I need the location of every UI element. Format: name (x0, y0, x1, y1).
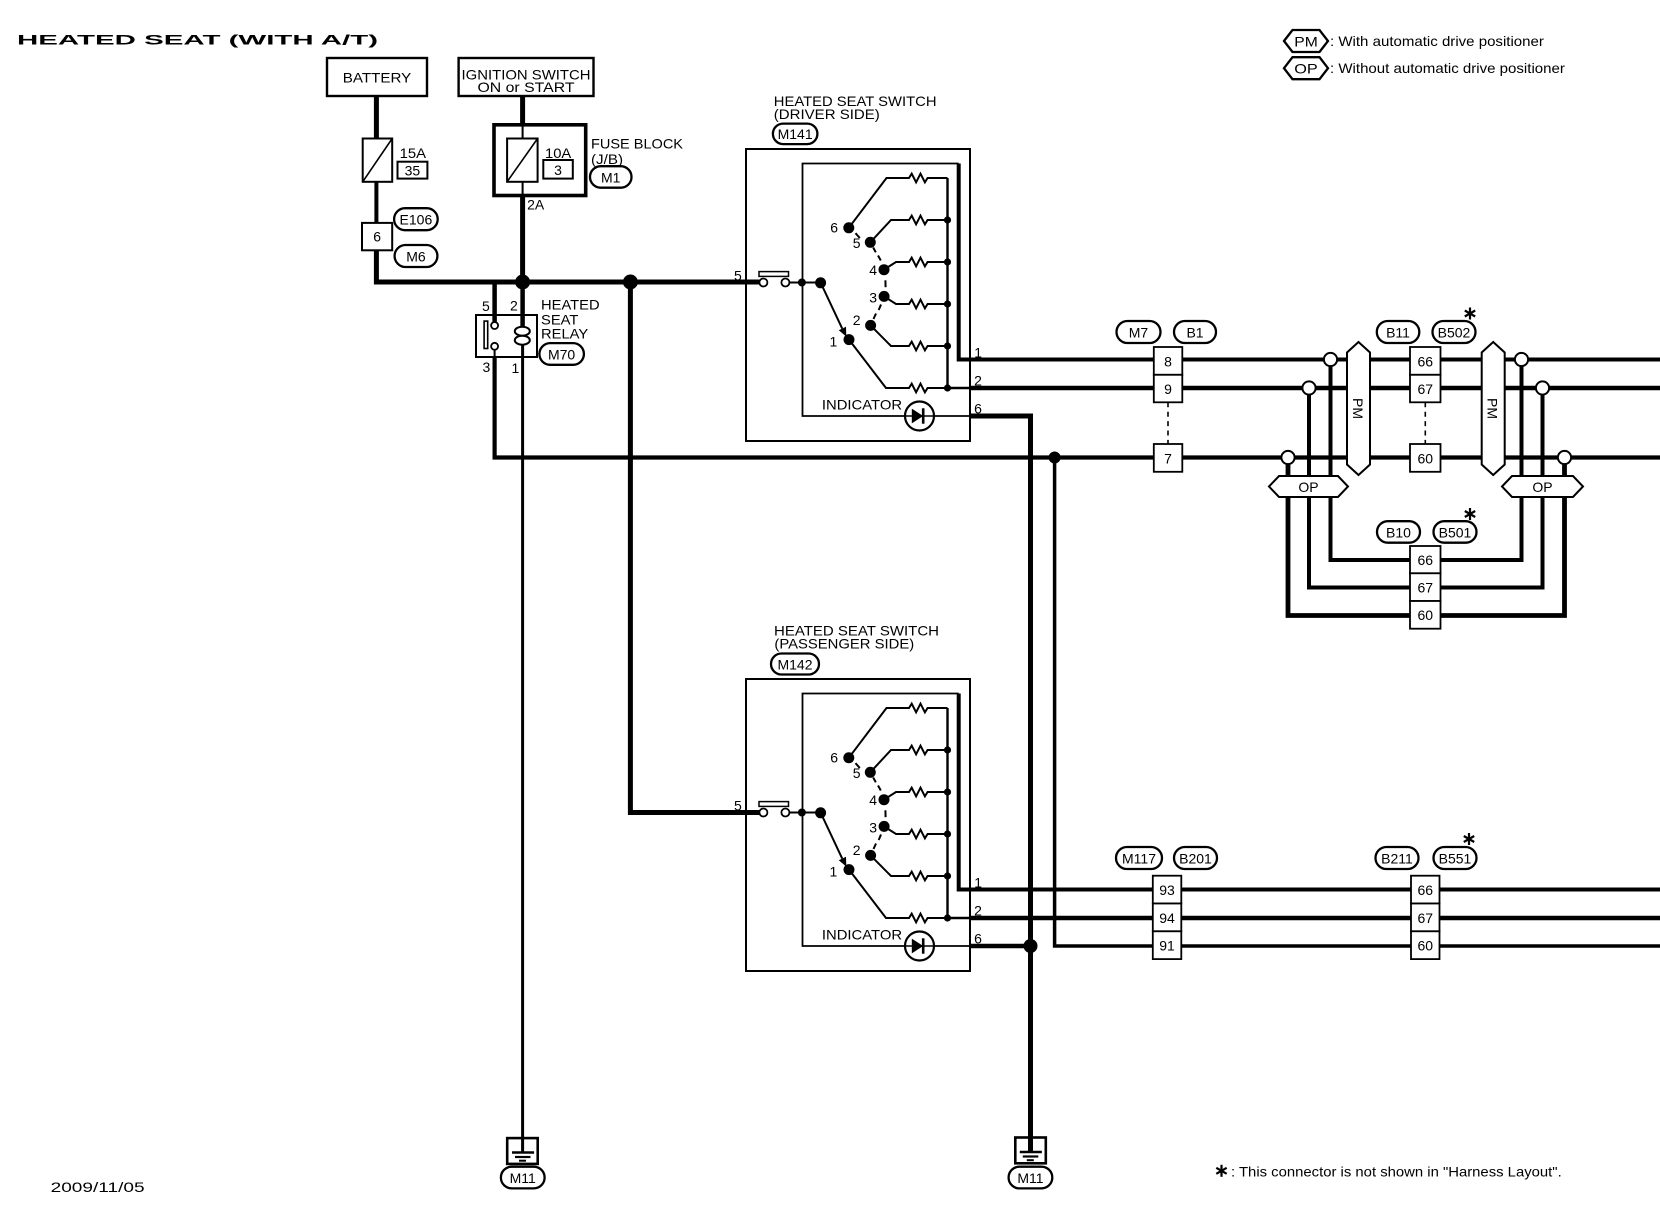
svg-text:E106: E106 (400, 212, 433, 228)
flag OP left (1269, 476, 1348, 497)
flag PM right (1482, 342, 1505, 475)
connector M117/B201 pin 91 (1153, 931, 1182, 959)
wire OP branch left 60 (1288, 458, 1410, 616)
svg-text:M70: M70 (548, 346, 575, 362)
wire ignition switch to fuse block (520, 96, 525, 126)
flag PM left (1347, 342, 1370, 475)
connector B211/B551 pin 66 (1411, 876, 1440, 904)
svg-text:67: 67 (1418, 381, 1434, 397)
connector B10/B501 pin 66 (1410, 546, 1441, 573)
connector M117/B201 pin 93 (1153, 876, 1182, 904)
wire driver pin 6 to ground M11 (970, 416, 1031, 1152)
fuse 15A (363, 139, 393, 182)
svg-text:M141: M141 (778, 126, 813, 142)
svg-text:B1: B1 (1186, 324, 1203, 340)
ignition switch (459, 58, 594, 96)
svg-text:66: 66 (1418, 882, 1434, 898)
svg-text:10A: 10A (545, 145, 572, 161)
svg-text:OP: OP (1532, 479, 1552, 495)
svg-text:15A: 15A (400, 145, 427, 161)
svg-text:66: 66 (1418, 552, 1434, 568)
connector B1 (1174, 321, 1216, 343)
connector B10/B501 pin 67 (1410, 573, 1441, 601)
ground connector M11 right (1009, 1167, 1053, 1189)
wire battery to fuse 15A (374, 96, 379, 139)
svg-text:60: 60 (1418, 450, 1434, 466)
svg-text:3: 3 (554, 162, 562, 178)
junction passenger feed (623, 275, 638, 290)
wire OP branch right 66 (1441, 360, 1522, 561)
svg-text:: Without automatic drive posi: : Without automatic drive positioner (1330, 60, 1565, 76)
legend flag OP (1284, 57, 1328, 79)
svg-text:M117: M117 (1122, 850, 1156, 866)
relay coil (515, 327, 530, 336)
wire OP branch left 67 (1309, 388, 1410, 588)
connector B551 (1434, 847, 1477, 869)
svg-text:B551: B551 (1439, 850, 1472, 866)
svg-text:7: 7 (1164, 450, 1172, 466)
relay contact terminals (491, 322, 498, 329)
junction ground pin6 (1024, 939, 1038, 953)
fuse 10A (507, 139, 537, 182)
svg-text:B201: B201 (1179, 850, 1212, 866)
ground M11 left (507, 1138, 538, 1164)
fuse block J/B (494, 125, 586, 196)
wire relay pin 5 (492, 282, 497, 322)
svg-text:OP: OP (1298, 479, 1318, 495)
connector B502 (1433, 321, 1476, 343)
dashed link 9-7 (1167, 402, 1169, 444)
heated seat relay M70 (476, 315, 537, 357)
connector B201 (1174, 847, 1217, 869)
connector M142 (771, 654, 819, 675)
svg-text:2: 2 (510, 298, 518, 314)
wire passenger switch feed (630, 282, 759, 813)
connector B10/B501 pin 60 (1410, 601, 1441, 629)
svg-text:M11: M11 (1017, 1170, 1043, 1186)
svg-text:: With automatic drive positio: : With automatic drive positioner (1330, 33, 1544, 49)
svg-text:: This connector is not shown: : This connector is not shown in "Harnes… (1231, 1164, 1562, 1180)
fuse number 35 (398, 162, 428, 179)
svg-text:ON or START: ON or START (478, 79, 576, 95)
svg-text:67: 67 (1418, 580, 1434, 596)
fuse number 3 (543, 160, 573, 179)
connector M7/B1 pin 8 (1154, 347, 1183, 375)
svg-text:9: 9 (1164, 381, 1172, 397)
star B501 (1465, 508, 1475, 520)
svg-text:60: 60 (1418, 938, 1434, 954)
junction ignition/relay feed (515, 275, 530, 290)
connector M70 (539, 343, 584, 365)
connector M7/B1 pin 9 (1154, 375, 1183, 403)
svg-text:RELAY: RELAY (541, 326, 589, 342)
wire relay pin 1 to ground M11 (521, 345, 524, 1153)
connector M1 (590, 166, 632, 188)
connector B211 (1376, 847, 1419, 869)
legend flag PM (1284, 30, 1328, 52)
connector B10 (1377, 521, 1420, 543)
svg-text:HEATED SEAT (WITH A/T): HEATED SEAT (WITH A/T) (17, 32, 378, 48)
svg-text:94: 94 (1159, 910, 1175, 926)
connector B211/B551 pin 60 (1411, 931, 1440, 959)
wire fuse block output 2A (520, 195, 525, 282)
svg-text:M11: M11 (510, 1170, 536, 1186)
connector M117/B201 pin 94 (1153, 904, 1182, 932)
label HEATED SEAT RELAY (541, 297, 600, 342)
svg-text:35: 35 (405, 163, 421, 179)
svg-text:1: 1 (512, 360, 520, 376)
svg-text:8: 8 (1164, 353, 1172, 369)
svg-text:3: 3 (483, 359, 491, 375)
connector B11/B502 pin 60 (1410, 444, 1441, 472)
svg-text:OP: OP (1294, 61, 1318, 77)
connector B11/B502 pin 67 (1410, 375, 1441, 403)
connector B501 (1434, 521, 1477, 543)
ground connector M11 left (501, 1167, 545, 1189)
connector M7 (1117, 321, 1161, 343)
svg-text:(PASSENGER SIDE): (PASSENGER SIDE) (774, 636, 914, 652)
ground M11 right (1015, 1138, 1046, 1164)
connector M6 (395, 245, 438, 267)
wire relay pin 2 (520, 282, 525, 327)
svg-text:2009/11/05: 2009/11/05 (51, 1179, 145, 1195)
flag OP right (1502, 476, 1583, 497)
svg-text:(J/B): (J/B) (591, 151, 623, 167)
svg-text:M1: M1 (601, 169, 621, 185)
star B502 (1465, 308, 1475, 320)
svg-text:HEATED: HEATED (541, 297, 600, 313)
svg-text:B211: B211 (1381, 850, 1413, 866)
relay pin labels (482, 298, 520, 376)
wire OP branch right 60 (1441, 458, 1565, 616)
svg-text:B502: B502 (1438, 324, 1471, 340)
relay contact bar (484, 321, 488, 348)
connector M117 (1116, 847, 1162, 869)
branch circles (1281, 353, 1571, 464)
svg-text:B10: B10 (1386, 524, 1411, 540)
connector M141 (773, 124, 818, 145)
svg-text:67: 67 (1418, 910, 1434, 926)
svg-text:93: 93 (1159, 882, 1175, 898)
svg-text:BATTERY: BATTERY (343, 69, 412, 85)
wire OP branch left 66 (1331, 360, 1411, 561)
wire relay pin 3 feed row to pin 7/60 (495, 357, 1660, 458)
star B551 (1464, 833, 1474, 845)
svg-text:66: 66 (1418, 353, 1434, 369)
battery (327, 58, 427, 96)
connector M7/B1 pin 7 (1154, 444, 1183, 472)
svg-text:60: 60 (1418, 607, 1434, 623)
dashed link 67-60 (1424, 402, 1426, 444)
wire OP branch right 67 (1441, 388, 1543, 588)
svg-text:6: 6 (373, 229, 381, 245)
svg-text:B11: B11 (1386, 324, 1410, 340)
wire feed branch to row 91 (1055, 458, 1660, 947)
svg-text:B501: B501 (1439, 524, 1472, 540)
svg-text:91: 91 (1159, 938, 1175, 954)
note star (1216, 1165, 1226, 1177)
wire relay pin 3 lead (494, 350, 496, 357)
junction row 91 tap (1049, 452, 1061, 464)
svg-text:FUSE BLOCK: FUSE BLOCK (591, 136, 684, 152)
heated seat switch passenger side M142 (734, 679, 1660, 971)
wire battery feed to main bus (376, 250, 759, 282)
svg-text:M142: M142 (777, 656, 812, 672)
svg-text:M6: M6 (406, 248, 426, 264)
svg-text:PM: PM (1485, 398, 1501, 419)
wire fuse 10A leads (522, 126, 524, 140)
svg-text:PM: PM (1350, 398, 1366, 419)
svg-text:5: 5 (482, 298, 490, 314)
connector B11/B502 pin 66 (1410, 347, 1441, 375)
svg-text:(DRIVER SIDE): (DRIVER SIDE) (774, 106, 880, 122)
svg-text:PM: PM (1294, 33, 1318, 49)
connector B211/B551 pin 67 (1411, 904, 1440, 932)
heated seat switch driver side M141 (734, 149, 1660, 441)
connector B11 (1377, 321, 1420, 343)
connector box 6 (362, 223, 392, 250)
connector E106 (394, 208, 438, 230)
wire passenger pin 6 to ground junction (970, 944, 1031, 949)
wire fuse 15A to connector 6 (374, 182, 378, 224)
svg-text:2A: 2A (527, 197, 545, 213)
svg-text:M7: M7 (1129, 324, 1149, 340)
